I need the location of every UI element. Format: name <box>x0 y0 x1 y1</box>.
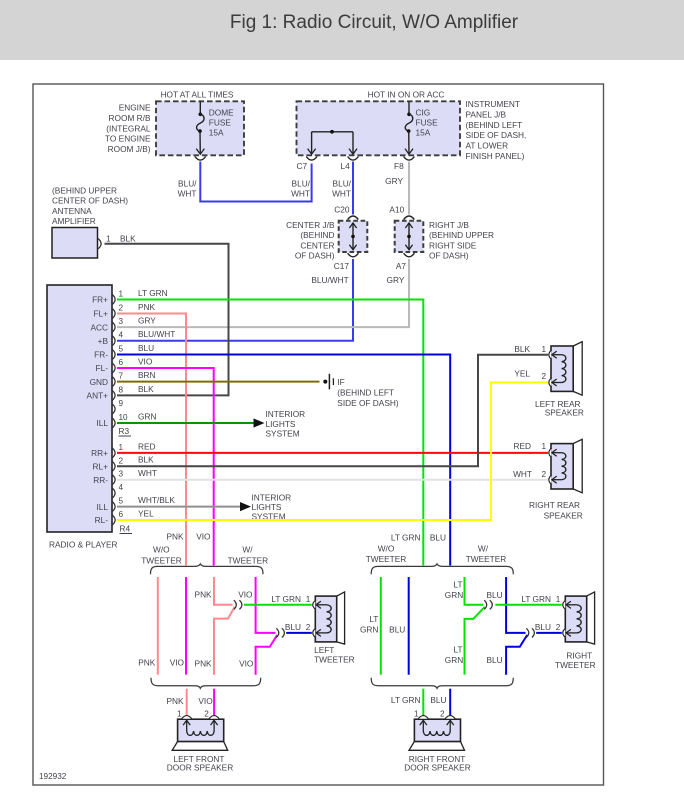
arrow to interior lights system (R3) <box>254 418 265 427</box>
svg-text:1: 1 <box>542 442 547 451</box>
svg-text:TWEETER: TWEETER <box>314 654 355 664</box>
svg-text:(INTEGRAL: (INTEGRAL <box>106 123 151 133</box>
svg-text:LT GRN: LT GRN <box>271 594 301 604</box>
svg-text:W/: W/ <box>242 544 253 554</box>
wire YEL radio pin 6 RL- to left rear speaker pin 2 <box>117 383 548 521</box>
svg-text:BLU: BLU <box>138 343 154 353</box>
svg-text:HOT AT ALL TIMES: HOT AT ALL TIMES <box>161 89 234 99</box>
svg-text:BLK: BLK <box>120 234 136 244</box>
svg-text:INTERIOR: INTERIOR <box>252 493 292 503</box>
wire BRN radio pin 7 GND to IF connector <box>117 381 320 383</box>
svg-text:GRY: GRY <box>138 316 156 326</box>
svg-text:TWEETER: TWEETER <box>228 555 269 565</box>
connector label R3 <box>119 426 132 436</box>
wire BLU radio pin 5 FR- down to right front harness <box>117 355 450 566</box>
svg-text:2: 2 <box>204 709 209 718</box>
svg-text:FUSE: FUSE <box>416 118 439 128</box>
svg-text:WHT: WHT <box>291 189 310 199</box>
svg-text:3: 3 <box>119 317 124 326</box>
svg-text:BLK: BLK <box>138 455 154 465</box>
speaker LEFT REAR <box>549 342 582 396</box>
svg-text:LT: LT <box>454 580 463 590</box>
svg-text:W/O: W/O <box>153 544 170 554</box>
svg-text:(BEHIND LEFT: (BEHIND LEFT <box>337 388 394 398</box>
svg-text:PNK: PNK <box>195 659 213 669</box>
fuse DOME FUSE 15A <box>196 101 204 154</box>
svg-text:5: 5 <box>119 345 124 354</box>
wire VIO to left front door speaker pin 2 <box>213 689 215 717</box>
svg-text:CENTER: CENTER <box>300 240 334 250</box>
svg-text:BRN: BRN <box>138 370 156 380</box>
svg-text:TWEETER: TWEETER <box>555 660 596 670</box>
svg-text:BLU: BLU <box>285 622 301 632</box>
wire PNK radio pin 2 FL+ down to left front harness <box>117 314 186 566</box>
svg-text:FINISH PANEL): FINISH PANEL) <box>466 151 525 161</box>
wire BLU/WHT L4 to C20 <box>352 162 354 215</box>
svg-text:1: 1 <box>177 709 182 718</box>
radio and player unit box <box>47 285 112 532</box>
svg-text:9: 9 <box>119 399 124 408</box>
wire LT GRN w/ tweeter branch to connector (right) <box>465 577 484 605</box>
svg-text:1: 1 <box>119 443 124 452</box>
connector A10/A7 RIGHT J/B <box>395 216 424 257</box>
wire VIO tap continuing down after connector (left) <box>256 635 278 675</box>
svg-text:1: 1 <box>106 234 111 244</box>
label ENGINE ROOM R/B (INTEGRAL TO ENGINE ROOM J/B) <box>105 103 151 155</box>
connector C20/C17 CENTER J/B <box>339 216 368 257</box>
svg-text:2: 2 <box>119 456 124 465</box>
svg-text:FR+: FR+ <box>92 295 108 305</box>
junction dot on C7-L4 jumper <box>330 130 334 134</box>
wire BLK antenna amplifier to radio pin 8 (ANT+) <box>105 244 229 396</box>
label W/O TWEETER (right) <box>366 544 407 564</box>
svg-text:FUSE: FUSE <box>209 118 232 128</box>
svg-text:YEL: YEL <box>138 508 154 518</box>
svg-text:GRY: GRY <box>387 275 405 285</box>
wire BLU tap continuing down (right) <box>506 635 527 675</box>
svg-text:A7: A7 <box>396 261 407 271</box>
svg-text:GRY: GRY <box>385 176 403 186</box>
svg-text:SIDE OF DASH,: SIDE OF DASH, <box>466 130 527 140</box>
svg-text:BLU: BLU <box>430 533 446 543</box>
svg-text:WHT: WHT <box>138 468 157 478</box>
label LT GRN upper w/ branch (right) <box>445 580 463 601</box>
svg-text:DOME: DOME <box>209 108 234 118</box>
wire GRY F8 to A10 <box>408 162 410 215</box>
label LT GRN at w/o branch (right) <box>360 614 378 634</box>
wire BLK radio pin 2 RL+ to left rear speaker pin 1 <box>117 355 548 467</box>
svg-text:LT GRN: LT GRN <box>138 288 168 298</box>
svg-text:C20: C20 <box>334 204 350 214</box>
svg-text:BLU/WHT: BLU/WHT <box>138 329 175 339</box>
svg-text:RADIO & PLAYER: RADIO & PLAYER <box>49 540 118 550</box>
wire VIO radio pin 6 FL- down to left front harness <box>117 368 214 566</box>
svg-text:RED: RED <box>138 441 156 451</box>
svg-text:VIO: VIO <box>196 532 211 542</box>
svg-text:WHT: WHT <box>332 189 351 199</box>
brace left harness bottom <box>151 678 261 689</box>
svg-text:RR+: RR+ <box>91 448 108 458</box>
svg-text:SPEAKER: SPEAKER <box>544 511 583 521</box>
label W/ TWEETER (left) <box>228 544 269 565</box>
speaker RIGHT FRONT DOOR <box>409 716 465 751</box>
svg-text:GRN: GRN <box>138 411 156 421</box>
svg-text:C7: C7 <box>297 161 308 171</box>
wire LT GRN tap continuing down (right) <box>465 607 485 675</box>
svg-text:PNK: PNK <box>166 532 184 542</box>
svg-text:BLU/: BLU/ <box>292 179 311 189</box>
svg-text:R3: R3 <box>119 426 130 436</box>
svg-text:1: 1 <box>306 595 311 604</box>
svg-text:RL+: RL+ <box>93 462 109 472</box>
svg-text:BLU: BLU <box>535 622 551 632</box>
svg-text:2: 2 <box>440 709 445 718</box>
svg-text:2: 2 <box>556 623 561 632</box>
svg-text:ILL: ILL <box>96 418 108 428</box>
svg-text:DOOR SPEAKER: DOOR SPEAKER <box>404 762 470 772</box>
svg-text:BLK: BLK <box>514 344 530 354</box>
svg-text:BLU/WHT: BLU/WHT <box>311 275 348 285</box>
wire PNK w/ tweeter branch to connector (left) <box>214 577 233 605</box>
svg-text:IF: IF <box>337 377 344 387</box>
svg-text:15A: 15A <box>416 128 431 138</box>
wire WHT/BLK radio pin 5 ILL to interior lights system <box>117 506 241 508</box>
label INTERIOR LIGHTS SYSTEM (R3) <box>266 409 306 439</box>
svg-text:PNK: PNK <box>138 658 156 668</box>
label CENTER J/B (BEHIND CENTER OF DASH) <box>286 220 335 261</box>
wire WHT radio pin 3 RR- to right rear speaker pin 2 <box>117 479 548 481</box>
brace right harness top <box>371 564 513 574</box>
svg-text:A10: A10 <box>389 204 404 214</box>
wire BLU to right front door speaker pin 2 <box>449 689 451 717</box>
svg-text:LT GRN: LT GRN <box>391 695 421 705</box>
svg-text:LT GRN: LT GRN <box>521 594 551 604</box>
pin 1 arc of antenna amplifier <box>98 239 101 249</box>
svg-text:LT: LT <box>454 645 463 655</box>
wire BLU w/ tweeter branch to connector (right) - vertical <box>506 577 525 633</box>
svg-text:VIO: VIO <box>238 589 253 599</box>
label (BEHIND UPPER CENTER OF DASH) ANTENNA AMPLIFIER <box>52 185 128 226</box>
svg-text:RIGHT J/B: RIGHT J/B <box>429 220 469 230</box>
svg-text:5: 5 <box>119 497 124 506</box>
label BLU/WHT at L4 <box>332 179 352 199</box>
svg-text:FR-: FR- <box>94 350 108 360</box>
label BLU/WHT at C7 <box>291 179 311 199</box>
svg-text:GRN: GRN <box>445 655 463 665</box>
svg-text:R4: R4 <box>120 524 131 534</box>
fuse CIG FUSE 15A <box>405 101 413 154</box>
inline connector arcs VIO to BLU (left tweeter pin 2 feed) <box>276 628 279 637</box>
svg-text:W/: W/ <box>478 544 489 554</box>
antenna amplifier box <box>52 228 98 259</box>
title bar <box>0 0 684 60</box>
svg-text:OF DASH): OF DASH) <box>295 251 335 261</box>
connector label R4 <box>120 524 133 534</box>
svg-text:ILL: ILL <box>96 502 108 512</box>
svg-text:CENTER OF DASH): CENTER OF DASH) <box>52 196 128 206</box>
svg-text:OF DASH): OF DASH) <box>429 251 469 261</box>
svg-text:RIGHT: RIGHT <box>566 650 592 660</box>
label LEFT FRONT DOOR SPEAKER <box>167 754 233 772</box>
svg-text:F8: F8 <box>394 161 404 171</box>
svg-text:LIGHTS: LIGHTS <box>252 502 282 512</box>
svg-text:TWEETER: TWEETER <box>141 555 182 565</box>
svg-text:YEL: YEL <box>514 369 530 379</box>
svg-text:FL-: FL- <box>96 363 109 373</box>
label RIGHT FRONT DOOR SPEAKER <box>404 754 470 772</box>
svg-text:1: 1 <box>414 709 419 718</box>
svg-text:BLU: BLU <box>389 625 405 635</box>
svg-text:2: 2 <box>119 304 124 313</box>
svg-text:BLK: BLK <box>138 384 154 394</box>
svg-text:8: 8 <box>119 385 124 394</box>
svg-text:1: 1 <box>542 345 547 354</box>
label CIG FUSE 15A <box>416 108 439 138</box>
svg-text:WHT: WHT <box>178 189 197 199</box>
junction dot at IF connector <box>323 380 327 384</box>
svg-text:WHT/BLK: WHT/BLK <box>138 495 175 505</box>
wire LT GRN to right front door speaker pin 1 <box>422 689 424 717</box>
inline connector arcs PNK to LT GRN (left tweeter pin 1 feed) <box>234 600 237 609</box>
svg-text:AMPLIFIER: AMPLIFIER <box>52 216 96 226</box>
svg-text:4: 4 <box>119 483 124 492</box>
speaker LEFT FRONT DOOR <box>172 716 228 751</box>
wire PNK to left front door speaker pin 1 <box>186 689 188 717</box>
svg-text:W/O: W/O <box>378 544 395 554</box>
svg-text:BLU: BLU <box>486 655 502 665</box>
radio connector R3 pins 1-10 <box>87 288 176 428</box>
junction block ENGINE ROOM R/B (dashed box) <box>156 101 244 155</box>
label W/O TWEETER (left) <box>141 544 182 565</box>
svg-text:SPEAKER: SPEAKER <box>545 408 584 418</box>
label BLU/WHT (dome fuse wire) <box>178 179 198 199</box>
svg-text:INSTRUMENT: INSTRUMENT <box>466 99 520 109</box>
svg-text:BLU: BLU <box>486 590 502 600</box>
svg-text:(BEHIND UPPER: (BEHIND UPPER <box>52 185 117 195</box>
brace right harness bottom <box>371 678 513 689</box>
svg-text:RL-: RL- <box>95 515 109 525</box>
junction block INSTRUMENT PANEL J/B (dashed box) <box>297 101 461 155</box>
svg-text:GRN: GRN <box>360 625 378 635</box>
label INSTRUMENT PANEL J/B (BEHIND LEFT SIDE OF DASH, AT LOWER FINISH PANEL) <box>466 99 527 161</box>
svg-text:TWEETER: TWEETER <box>466 554 507 564</box>
label DOME FUSE 15A <box>209 108 234 138</box>
svg-text:AT LOWER: AT LOWER <box>466 141 509 151</box>
svg-text:15A: 15A <box>209 128 224 138</box>
connector arcs at C7 L4 F8 outputs <box>306 157 414 161</box>
svg-text:INTERIOR: INTERIOR <box>266 409 306 419</box>
svg-text:10: 10 <box>119 413 129 422</box>
wire VIO w/ tweeter branch to connector (left) <box>256 577 276 633</box>
svg-text:VIO: VIO <box>239 659 254 669</box>
svg-text:192932: 192932 <box>39 772 67 781</box>
label IF (BEHIND LEFT SIDE OF DASH) <box>337 377 399 408</box>
svg-text:VIO: VIO <box>198 696 213 706</box>
svg-text:PNK: PNK <box>138 302 156 312</box>
svg-text:ROOM J/B): ROOM J/B) <box>108 144 151 154</box>
svg-text:BLU/: BLU/ <box>178 179 197 189</box>
diagram border frame <box>33 84 604 785</box>
svg-text:BLU/: BLU/ <box>333 179 352 189</box>
inline connector arcs BLU (right tweeter pin 2 feed) <box>526 628 529 637</box>
svg-text:6: 6 <box>119 358 124 367</box>
radio connector R4 pins 1-6 <box>91 441 175 525</box>
wire GRN radio pin 10 ILL to interior lights system <box>117 422 254 424</box>
svg-text:GND: GND <box>90 377 108 387</box>
wire LT GRN w/o tweeter branch (right) <box>380 577 382 675</box>
svg-text:VIO: VIO <box>138 356 153 366</box>
svg-text:CIG: CIG <box>416 108 431 118</box>
label RIGHT TWEETER <box>555 650 596 670</box>
svg-text:HOT IN ON OR ACC: HOT IN ON OR ACC <box>368 89 445 99</box>
svg-text:PNK: PNK <box>195 589 213 599</box>
svg-text:1: 1 <box>556 595 561 604</box>
label LEFT TWEETER <box>314 645 355 664</box>
svg-text:RIGHT REAR: RIGHT REAR <box>529 500 580 510</box>
label LEFT REAR SPEAKER <box>535 399 584 418</box>
svg-text:Fig 1: Radio Circuit, W/O Ampl: Fig 1: Radio Circuit, W/O Amplifier <box>230 12 519 33</box>
label RIGHT J/B (BEHIND UPPER RIGHT SIDE OF DASH) <box>429 220 494 261</box>
wire PNK tap continuing down after connector (left) <box>214 607 235 675</box>
wire BLU connector to left tweeter pin 2 <box>286 632 312 634</box>
svg-text:VIO: VIO <box>170 658 185 668</box>
svg-text:CENTER J/B: CENTER J/B <box>286 220 335 230</box>
svg-text:BLU: BLU <box>430 695 446 705</box>
svg-text:TWEETER: TWEETER <box>366 554 407 564</box>
wire LT GRN radio pin 1 FR+ down to right front harness <box>117 300 423 566</box>
svg-text:LT GRN: LT GRN <box>391 533 421 543</box>
svg-text:ANT+: ANT+ <box>87 391 109 401</box>
svg-text:GRN: GRN <box>445 590 463 600</box>
wire LT GRN connector to left tweeter pin 1 <box>244 604 312 606</box>
svg-text:6: 6 <box>119 510 124 519</box>
svg-text:L4: L4 <box>341 161 351 171</box>
svg-text:2: 2 <box>306 623 311 632</box>
wire BLU connector to right tweeter pin 2 <box>536 632 562 634</box>
brace left harness top <box>151 564 264 574</box>
wire RED radio pin 1 RR+ to right rear speaker pin 1 <box>117 452 548 454</box>
svg-text:1: 1 <box>119 290 124 299</box>
svg-text:RR-: RR- <box>93 475 108 485</box>
svg-text:7: 7 <box>119 372 124 381</box>
svg-text:3: 3 <box>119 470 124 479</box>
svg-text:WHT: WHT <box>513 469 532 479</box>
wire LT GRN connector to right tweeter pin 1 <box>495 604 561 606</box>
svg-text:ENGINE: ENGINE <box>119 103 151 113</box>
svg-text:ROOM R/B: ROOM R/B <box>109 113 151 123</box>
svg-text:TO ENGINE: TO ENGINE <box>105 134 151 144</box>
wire BLU/WHT dome fuse to C7 <box>200 162 311 202</box>
svg-text:2: 2 <box>542 372 547 381</box>
svg-text:DOOR SPEAKER: DOOR SPEAKER <box>167 762 233 772</box>
wire BLU w/o tweeter branch (right) <box>408 577 410 675</box>
svg-text:(BEHIND LEFT: (BEHIND LEFT <box>466 120 523 130</box>
arrow to interior lights system (R4) <box>240 502 251 511</box>
label RIGHT REAR SPEAKER <box>529 500 583 521</box>
speaker LEFT TWEETER <box>313 592 345 644</box>
svg-text:LT: LT <box>369 614 378 624</box>
svg-text:SYSTEM: SYSTEM <box>266 429 300 439</box>
svg-text:ACC: ACC <box>90 322 108 332</box>
svg-text:ANTENNA: ANTENNA <box>52 206 92 216</box>
wire BLU/WHT C17 to radio pin 4 (+B) <box>117 259 353 341</box>
svg-text:LIGHTS: LIGHTS <box>266 419 296 429</box>
svg-text:4: 4 <box>119 331 124 340</box>
svg-text:+B: +B <box>98 336 109 346</box>
internal jumper C7 to L4 with junction <box>308 132 357 154</box>
svg-text:2: 2 <box>542 470 547 479</box>
inline connector arcs LT GRN (right tweeter pin 1 feed) <box>484 600 487 609</box>
svg-text:SIDE OF DASH): SIDE OF DASH) <box>337 398 399 408</box>
label LT GRN lower w/ branch (right) <box>445 645 463 666</box>
svg-text:C17: C17 <box>334 261 350 271</box>
wire PNK w/o tweeter branch (left) <box>157 577 159 675</box>
svg-text:PANEL J/B: PANEL J/B <box>466 109 507 119</box>
svg-text:RIGHT SIDE: RIGHT SIDE <box>429 240 477 250</box>
label INTERIOR LIGHTS SYSTEM (R4) <box>252 493 292 522</box>
svg-text:(BEHIND: (BEHIND <box>300 230 334 240</box>
svg-text:FL+: FL+ <box>93 309 108 319</box>
svg-text:PNK: PNK <box>166 696 184 706</box>
svg-text:(BEHIND UPPER: (BEHIND UPPER <box>429 230 494 240</box>
wire GRY A7 to radio pin 3 (ACC) <box>117 259 409 327</box>
connector IF (ground, behind left side of dash) <box>329 374 333 390</box>
connector arc at dome fuse output <box>195 157 206 161</box>
speaker RIGHT TWEETER <box>563 592 595 644</box>
label W/ TWEETER (right) <box>466 544 507 564</box>
svg-text:RED: RED <box>513 441 531 451</box>
wire VIO w/o tweeter branch (left) <box>185 577 187 675</box>
speaker RIGHT REAR <box>549 439 582 493</box>
